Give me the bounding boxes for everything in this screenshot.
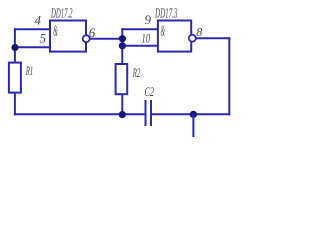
- inversion bubble output DD17.3: [189, 35, 196, 42]
- inversion bubble output DD17.2: [83, 35, 90, 42]
- svg-text:R1: R1: [25, 63, 33, 78]
- svg-text:R2: R2: [132, 65, 140, 80]
- logic gate DD17.3 box: [158, 21, 191, 52]
- wire R1 bottom lead: [14, 93, 16, 116]
- svg-text:9: 9: [145, 12, 152, 27]
- capacitor C2 right plate: [150, 100, 152, 126]
- svg-text:10: 10: [142, 31, 151, 46]
- svg-text:4: 4: [35, 12, 42, 27]
- wire pin8 output horizontal: [196, 37, 230, 39]
- wire bottom rail right of capacitor: [152, 113, 230, 115]
- capacitor C2 left plate: [145, 100, 147, 126]
- svg-text:&: &: [53, 23, 58, 39]
- logic gate DD17.2 box: [50, 21, 86, 52]
- wire pin10 input horizontal: [121, 45, 158, 47]
- resistor R2: [116, 64, 128, 94]
- wire pin9 input horizontal: [121, 28, 158, 30]
- resistor R1: [9, 63, 21, 93]
- wire R2 bottom lead: [121, 94, 123, 115]
- node junction R2 to bottom rail: [119, 111, 126, 118]
- svg-text:8: 8: [196, 25, 202, 39]
- node junction left input: [11, 44, 18, 51]
- node junction pin10 feed: [119, 42, 126, 49]
- svg-text:C2: C2: [145, 84, 155, 99]
- wire bottom rail left of capacitor: [14, 113, 145, 115]
- wire middle vertical node: [121, 28, 123, 64]
- wire pin4 input horizontal: [14, 28, 51, 30]
- svg-text:DD17.3: DD17.3: [154, 6, 177, 21]
- wire right vertical: [228, 37, 230, 115]
- node junction output tap: [190, 111, 197, 118]
- wire pin6 output horizontal: [90, 38, 123, 40]
- wire left vertical node: [14, 28, 16, 62]
- node junction pin6 feed: [119, 35, 126, 42]
- wire output terminal down: [192, 114, 194, 137]
- wire pin5 input horizontal: [14, 46, 51, 48]
- svg-text:&: &: [161, 23, 166, 39]
- svg-text:5: 5: [40, 31, 47, 46]
- svg-text:DD17.2: DD17.2: [51, 6, 73, 21]
